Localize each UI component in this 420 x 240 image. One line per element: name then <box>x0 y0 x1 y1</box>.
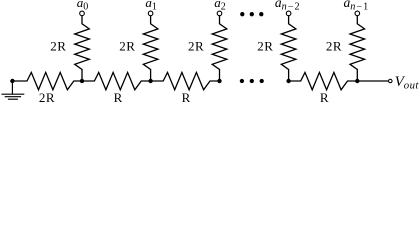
svg-text:2R: 2R <box>326 38 342 53</box>
node N2 (junction a1 branch) <box>148 79 152 83</box>
svg-text:R: R <box>182 90 191 105</box>
ground <box>2 81 25 99</box>
resistor 2R (a_{n-2} branch, vertical) <box>281 15 296 81</box>
ellipsis (top terminals continuation dots) <box>240 12 263 16</box>
resistor 2R (a0 branch, vertical) <box>75 15 90 81</box>
terminal a_{n-2} (open circle) <box>286 11 291 16</box>
terminal a0 (open circle) <box>80 11 85 16</box>
node N5 (junction a_{n-1} branch / output node) <box>355 79 359 83</box>
svg-text:2R: 2R <box>50 38 66 53</box>
resistor R (node N4 to node N5) <box>289 72 358 89</box>
resistor R (node N2 to node N3) <box>151 72 220 89</box>
terminal Vout (open circle) <box>389 79 393 83</box>
wire (node N5 to Vout terminal) <box>357 80 388 82</box>
resistor R (node N1 to node N2) <box>82 72 151 89</box>
ellipsis (bottom rail continuation dots) <box>240 79 264 83</box>
node N1 (junction a0 branch) <box>80 79 84 83</box>
node N3 (junction a2 branch) <box>217 79 221 83</box>
svg-text:R: R <box>320 90 329 105</box>
terminal a1 (open circle) <box>148 11 153 16</box>
resistor 2R (bottom ladder, ground to node N1) <box>12 72 82 89</box>
node N4 (junction a_{n-2} branch) <box>286 79 290 83</box>
resistor 2R (a2 branch, vertical) <box>212 15 227 81</box>
svg-text:R: R <box>114 90 123 105</box>
terminal a2 (open circle) <box>217 11 222 16</box>
svg-text:2R: 2R <box>257 38 273 53</box>
terminal a_{n-1} (open circle) <box>355 11 360 16</box>
svg-text:2R: 2R <box>119 38 135 53</box>
svg-text:2R: 2R <box>188 38 204 53</box>
resistor 2R (a1 branch, vertical) <box>143 15 158 81</box>
node N0 (left rail end / ground node) <box>10 79 14 83</box>
resistor 2R (a_{n-1} branch, vertical) <box>350 15 365 81</box>
svg-text:2R: 2R <box>39 90 55 105</box>
